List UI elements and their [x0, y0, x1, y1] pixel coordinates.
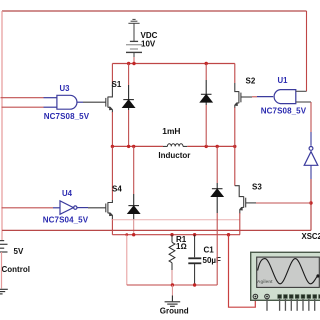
ground symbol	[171, 285, 173, 296]
node: dot C1 top	[193, 233, 196, 236]
scope terminal 2	[265, 294, 270, 299]
wire: long control line to XSC2/inverter	[2, 229, 311, 231]
svg-text:S1: S1	[112, 80, 122, 89]
wire: middle rail left of inductor	[112, 145, 163, 147]
svg-text:10V: 10V	[141, 39, 156, 48]
wire: scope probe from low rail	[229, 235, 256, 308]
wire: S3 drain from middle rail	[234, 146, 236, 185]
svg-text:S3: S3	[252, 183, 262, 192]
svg-text:C1: C1	[204, 245, 215, 254]
wire: ground branch down from low rail	[126, 235, 128, 285]
oscilloscope screen	[257, 257, 320, 287]
wire: U1 top input lead	[296, 90, 307, 92]
node: dot D1 bottom	[127, 145, 130, 148]
svg-text:50µF: 50µF	[203, 256, 222, 265]
wire: faint pin-row line	[112, 219, 240, 221]
wire: U4 input	[2, 207, 54, 209]
svg-text:NC7S08_5V: NC7S08_5V	[44, 112, 90, 121]
wire: U1 output to S2 gate	[241, 96, 252, 98]
svg-text:5V: 5V	[14, 247, 24, 256]
oscilloscope waveform	[258, 259, 319, 284]
wire: inverter input lead down	[310, 165, 312, 179]
scope pin terminals	[278, 295, 320, 299]
node: dot diode D1 top	[127, 62, 130, 65]
ground (inverted) on VDC +	[128, 19, 139, 41]
scope pins below	[267, 299, 315, 311]
wire: S1 drain from top rail	[111, 64, 113, 85]
node: dot R1 top	[170, 233, 173, 236]
node: dot D4 top	[132, 145, 135, 148]
capacitor C1	[188, 235, 201, 285]
oscilloscope XSC2 body	[251, 252, 320, 300]
node: dot scope branch	[227, 233, 230, 236]
inverter U4	[53, 201, 88, 215]
inductor 1mH	[163, 144, 187, 147]
wire: ground bus	[127, 284, 217, 286]
wire: S4 source to low rail	[111, 219, 113, 235]
diode D3	[216, 146, 218, 183]
wire: S1 source to middle rail	[111, 112, 113, 146]
wire: S3 source to low rail	[239, 213, 241, 235]
diode D1	[128, 64, 130, 86]
svg-text:U1: U1	[278, 76, 289, 85]
wire: U1 bottom input lead	[296, 101, 311, 103]
battery VDC 10V	[126, 41, 142, 58]
wire: left control rail	[1, 11, 3, 241]
transistor S3	[235, 186, 246, 214]
node: dot R1 bottom / ground lead	[171, 283, 174, 286]
node: dot S2/S3 junction	[233, 145, 236, 148]
wire: bridge output low rail	[112, 234, 240, 236]
wire: U3 input 1	[1, 97, 44, 99]
svg-text:U4: U4	[62, 189, 73, 198]
svg-text:U3: U3	[60, 84, 71, 93]
wire: U3 input 2	[2, 106, 44, 108]
wire: middle rail right of inductor	[187, 145, 235, 147]
scope terminal 1	[253, 294, 258, 299]
wire: S2 drain from top rail	[234, 64, 236, 84]
node: dot C1 bottom	[193, 283, 196, 286]
svg-text:Control: Control	[2, 265, 30, 274]
wire: D3 bottom to ground bus	[216, 213, 218, 285]
node: dot S3 gate junction	[309, 201, 312, 204]
svg-text:S2: S2	[246, 76, 256, 85]
wire: top control rail	[2, 10, 307, 12]
ground for control source	[0, 289, 8, 294]
wire: right vertical to U1 top input	[306, 11, 308, 91]
svg-text:NC7S04_5V: NC7S04_5V	[43, 215, 89, 224]
node: dot VDC to rail	[132, 62, 135, 65]
wire: inverter net vertical	[310, 102, 312, 132]
svg-text:1mH: 1mH	[162, 126, 180, 136]
svg-text:Inductor: Inductor	[158, 151, 190, 160]
transistor S4	[106, 200, 113, 220]
svg-text:S4: S4	[112, 185, 122, 194]
node: dot S1/S4 junction	[111, 145, 114, 148]
svg-text:Agilent: Agilent	[257, 279, 273, 284]
node: dot D4 bottom	[132, 233, 135, 236]
node: dot D3 top	[216, 145, 219, 148]
wire: S3 gate to junction	[246, 202, 256, 204]
wire: battery to bridge top rail	[133, 57, 135, 64]
node: dot ground branch	[125, 233, 128, 236]
op-amp U3 (AND gate)	[44, 95, 84, 109]
inverter U2	[304, 147, 318, 166]
transistor S2	[234, 83, 241, 108]
wire: H-bridge top rail	[112, 63, 234, 65]
svg-text:1Ω: 1Ω	[176, 242, 187, 251]
wire: U4 output to S4 gate	[88, 207, 106, 209]
wire: inverter input to control	[310, 179, 312, 230]
svg-text:XSC2: XSC2	[302, 232, 320, 241]
wire: U3 output to S1 gate	[83, 101, 106, 103]
op-amp U1 (AND gate mirrored)	[257, 90, 296, 104]
node: dot diode D2 top	[205, 62, 208, 65]
svg-text:Ground: Ground	[160, 307, 189, 316]
wire: S4 drain from middle rail	[111, 146, 113, 200]
battery Control 5V	[0, 241, 8, 252]
wire: control battery to ground	[1, 252, 3, 289]
resistor R1	[169, 235, 175, 270]
svg-text:NC7S08_5V: NC7S08_5V	[261, 106, 307, 115]
wire: S2 source to middle rail	[234, 108, 236, 147]
node: dot D2 bottom	[205, 145, 208, 148]
transistor S1	[106, 84, 113, 113]
diode D2	[205, 64, 207, 81]
diode D4	[133, 146, 135, 194]
